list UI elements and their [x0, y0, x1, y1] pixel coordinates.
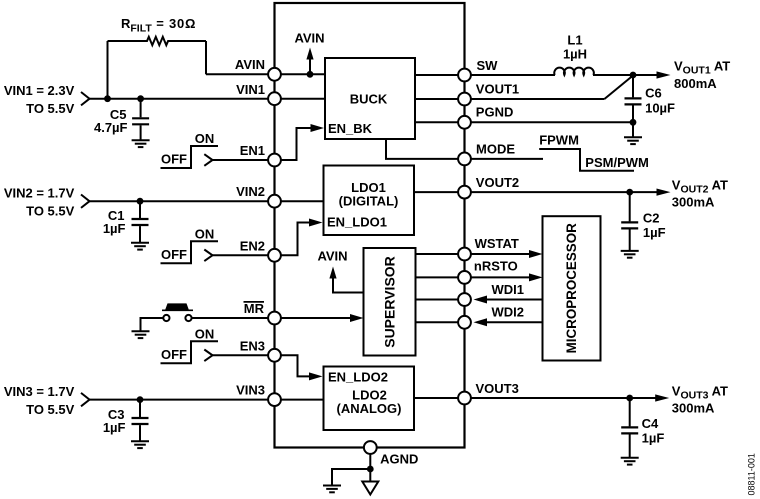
svg-text:1µF: 1µF — [642, 431, 665, 446]
EN2 pin label — [240, 238, 265, 253]
MR pin label — [244, 301, 265, 316]
svg-text:OFF: OFF — [161, 152, 187, 167]
wire PGND pin to C6 — [465, 121, 634, 123]
BUCK label — [350, 92, 388, 107]
svg-text:800mA: 800mA — [674, 76, 717, 91]
wire AVIN pin to BUCK — [275, 73, 326, 75]
VIN2 source label — [4, 185, 75, 218]
pin PGND — [458, 116, 471, 129]
svg-text:C6: C6 — [645, 86, 662, 101]
node VIN1/RFILT junction — [104, 95, 111, 102]
VOUT1 pin label — [476, 82, 519, 97]
LDO1 label — [351, 180, 386, 195]
wire WSTAT to microprocessor (with arrow) — [465, 250, 543, 258]
LDO2 label — [352, 387, 387, 402]
WDI2 pin label — [492, 304, 525, 319]
earth ground (AGND) — [323, 486, 341, 493]
wire SUPERVISOR to WDI2 pin — [416, 321, 465, 323]
wire VIN1 pin to BUCK — [275, 98, 326, 100]
pin VOUT3 — [458, 392, 471, 405]
svg-text:300mA: 300mA — [672, 401, 715, 416]
svg-text:(ANALOG): (ANALOG) — [337, 401, 402, 416]
wire VIN3 pin to LDO2 — [275, 399, 324, 401]
LDO1 (DIGITAL) label — [339, 194, 399, 209]
EN1 pin label — [240, 143, 265, 158]
switch ON/OFF for EN1 (step symbol) — [161, 146, 219, 168]
VIN2 pin label — [236, 184, 265, 199]
svg-text:1µF: 1µF — [643, 225, 666, 240]
pin VOUT2 — [458, 186, 471, 199]
pin WSTAT — [458, 248, 471, 261]
C5 value label — [94, 120, 128, 135]
wire L1 to VOUT1 arrow — [593, 74, 658, 76]
wire MODE stub — [465, 158, 544, 160]
VOUT2 current label — [672, 195, 715, 210]
svg-text:VOUT3: VOUT3 — [476, 381, 519, 396]
LDO2 (ANALOG) label — [337, 401, 402, 416]
wire BUCK to SW pin — [415, 74, 465, 76]
C3 ref label — [108, 407, 125, 422]
pin EN3 — [268, 349, 281, 362]
wire VIN1 input to pin — [90, 98, 275, 100]
wire microprocessor to WDI1 (with arrow) — [474, 296, 543, 304]
capacitor C4 1uF — [621, 398, 638, 458]
C6 ref label — [645, 86, 662, 101]
wire VIN2 input to pin — [90, 200, 275, 202]
svg-text:FPWM: FPWM — [539, 133, 579, 148]
pin VIN3 — [268, 393, 281, 406]
svg-text:AVIN: AVIN — [317, 248, 347, 263]
wire VOUT1 diagonal to node — [604, 76, 633, 100]
svg-text:C2: C2 — [643, 210, 660, 225]
svg-text:1µF: 1µF — [103, 420, 126, 435]
C2 value label — [643, 225, 666, 240]
IC U1 (PMIC) outline — [275, 3, 465, 448]
PSM/PWM label — [585, 155, 649, 170]
wire MR ground to pushbutton — [141, 318, 164, 331]
pin nRSTO — [458, 271, 471, 284]
pin MODE — [458, 153, 471, 166]
svg-text:OFF: OFF — [161, 347, 187, 362]
AVIN net up-arrow — [306, 48, 313, 75]
EN3 switch OFF label — [161, 347, 187, 362]
SUPERVISOR label — [382, 256, 398, 348]
svg-text:MODE: MODE — [476, 141, 515, 156]
svg-text:08811-001: 08811-001 — [746, 453, 756, 495]
C6 value label — [645, 100, 675, 115]
svg-text:PGND: PGND — [476, 104, 514, 119]
VOUT2 pin label — [476, 175, 519, 190]
capacitor C2 1uF — [621, 192, 638, 251]
capacitor C5 4.7uF — [132, 99, 149, 141]
svg-text:ON: ON — [195, 131, 215, 146]
switch ON/OFF for EN2 (step symbol) — [161, 241, 219, 263]
svg-text:EN_BK: EN_BK — [328, 121, 373, 136]
nRSTO pin label — [474, 259, 518, 274]
pin EN1 — [268, 154, 281, 167]
C3 value label — [103, 420, 126, 435]
node AVIN branch junction — [307, 71, 314, 78]
L1 ref label — [567, 33, 582, 48]
svg-text:EN2: EN2 — [240, 238, 265, 253]
svg-text:OFF: OFF — [161, 247, 187, 262]
pin EN2 — [268, 249, 281, 262]
VIN1 input chevron — [81, 92, 90, 105]
ground for MR switch — [132, 331, 150, 338]
wire BUCK to VOUT1 pin — [415, 98, 465, 100]
svg-text:300mA: 300mA — [672, 195, 715, 210]
ground for C6 — [624, 137, 642, 144]
svg-text:EN_LDO1: EN_LDO1 — [327, 215, 387, 230]
VOUT2 output arrow — [657, 189, 671, 196]
EN_BK pin label — [328, 121, 373, 136]
svg-text:WDI1: WDI1 — [492, 282, 525, 297]
wire microprocessor to WDI2 (with arrow) — [474, 318, 543, 326]
svg-text:TO 5.5V: TO 5.5V — [26, 101, 75, 116]
ground for C2 — [621, 251, 639, 258]
wire nRSTO to microprocessor (with arrow) — [465, 273, 543, 281]
wire VOUT1 pin right — [465, 98, 605, 100]
RFILT value label — [121, 16, 196, 35]
VOUT1 output arrow — [657, 71, 671, 78]
pin AVIN — [268, 68, 281, 81]
svg-text:BUCK: BUCK — [350, 92, 388, 107]
wire pushbutton to MR pin — [192, 317, 275, 319]
pin SW — [458, 69, 471, 82]
wire EN3 switch to pin — [213, 354, 275, 356]
WSTAT pin label — [475, 236, 519, 251]
svg-text:AVIN: AVIN — [294, 31, 324, 46]
figure number 08811-001 — [746, 453, 756, 495]
svg-text:AVIN: AVIN — [235, 57, 265, 72]
svg-text:VIN1: VIN1 — [236, 82, 265, 97]
svg-text:PSM/PWM: PSM/PWM — [585, 155, 649, 170]
svg-text:VOUT2: VOUT2 — [476, 175, 519, 190]
C1 value label — [103, 221, 126, 236]
wire into AVIN pin — [206, 73, 275, 75]
ground for C3 — [131, 441, 149, 448]
pushbutton S1 (MR) — [162, 303, 193, 321]
svg-text:VIN2 = 1.7V: VIN2 = 1.7V — [4, 185, 75, 200]
svg-text:ON: ON — [195, 226, 215, 241]
LDO2 block — [324, 367, 415, 431]
svg-text:4.7µF: 4.7µF — [94, 120, 128, 135]
wire EN2 switch to pin — [213, 254, 275, 256]
node PGND/C6 junction — [630, 119, 637, 126]
svg-text:ON: ON — [195, 326, 215, 341]
EN2 switch ON label — [195, 226, 215, 241]
VOUT3 output arrow — [655, 394, 669, 401]
switch ON/OFF for EN3 (step symbol) — [161, 341, 219, 363]
svg-text:nRSTO: nRSTO — [474, 259, 518, 274]
resistor RFILT (30 ohm) zigzag — [108, 37, 207, 45]
svg-text:TO 5.5V: TO 5.5V — [26, 402, 75, 417]
signal ground triangle (AGND) — [362, 482, 378, 495]
EN_LDO2 pin label — [328, 370, 388, 385]
svg-text:WSTAT: WSTAT — [475, 236, 519, 251]
AVIN up-arrow to supervisor — [329, 267, 363, 293]
node VOUT3/C4 junction — [626, 395, 633, 402]
wire VIN1 junction to RFILT (vertical) — [107, 41, 109, 99]
svg-text:VIN1 = 2.3V: VIN1 = 2.3V — [4, 83, 75, 98]
node VIN3/C3 junction — [137, 396, 144, 403]
svg-text:MICROPROCESSOR: MICROPROCESSOR — [564, 223, 579, 354]
pin VIN1 — [268, 92, 281, 105]
wire RFILT to AVIN row (vertical) — [205, 41, 207, 74]
wire VIN2 pin to LDO1 — [275, 200, 324, 202]
inductor L1 1uH — [554, 68, 594, 75]
pin VIN2 — [268, 195, 281, 208]
VIN3 pin label — [236, 383, 265, 398]
pin MR (active-low) — [268, 312, 281, 325]
node VIN1/C5 junction — [137, 95, 144, 102]
ground for C5 — [132, 140, 150, 147]
svg-text:VIN3 = 1.7V: VIN3 = 1.7V — [4, 384, 75, 399]
wire SUPERVISOR to WSTAT pin — [416, 253, 465, 255]
svg-text:1µF: 1µF — [103, 221, 126, 236]
AGND pin label — [380, 452, 418, 467]
svg-text:VIN2: VIN2 — [236, 184, 265, 199]
wire EN1 switch to pin — [213, 159, 275, 161]
svg-text:VOUT1: VOUT1 — [476, 82, 519, 97]
wire VIN3 input to pin — [90, 399, 275, 401]
FPWM label — [539, 133, 579, 148]
C5 ref label — [110, 107, 127, 122]
node AGND junction — [367, 466, 374, 473]
wire LDO2 to VOUT3 pin — [414, 397, 465, 399]
EN1 switch OFF label — [161, 152, 187, 167]
EN1 input chevron — [204, 154, 212, 166]
EN3 switch ON label — [195, 326, 215, 341]
wire AGND to earth ground — [332, 469, 370, 486]
VIN1 pin label — [236, 82, 265, 97]
svg-text:SW: SW — [477, 58, 499, 73]
node VIN2/C1 junction — [137, 198, 144, 205]
svg-text:(DIGITAL): (DIGITAL) — [339, 194, 399, 209]
wire C6/PGND to ground — [632, 122, 634, 137]
pin WDI1 — [458, 293, 471, 306]
pin VOUT1 — [458, 93, 471, 106]
wire AGND to signal ground — [369, 469, 371, 482]
WDI1 pin label — [492, 282, 525, 297]
wire VOUT3 pin right — [465, 397, 657, 399]
VOUT3 net label — [672, 384, 728, 402]
wire SW pin to L1 — [465, 74, 556, 76]
AVIN net label (supervisor) — [317, 248, 347, 263]
C4 ref label — [642, 416, 659, 431]
svg-text:EN_LDO2: EN_LDO2 — [328, 370, 388, 385]
C1 ref label — [108, 208, 125, 223]
VOUT1 net label — [674, 59, 730, 77]
wire BUCK to MODE pin — [386, 139, 465, 159]
EN3 pin label — [240, 338, 265, 353]
node VOUT2/C2 junction — [626, 189, 633, 196]
BUCK block — [325, 58, 415, 139]
capacitor C1 1uF — [132, 201, 149, 243]
svg-text:10µF: 10µF — [645, 100, 675, 115]
L1 value label — [563, 47, 587, 62]
node SW/C6/VOUT1 junction — [630, 72, 637, 79]
svg-text:AGND: AGND — [380, 452, 418, 467]
EN2 input chevron — [204, 250, 212, 262]
VOUT1 current label — [674, 76, 717, 91]
VIN3 input chevron — [81, 393, 90, 406]
wire BUCK to PGND pin — [415, 121, 465, 123]
VOUT2 net label — [672, 177, 728, 195]
svg-text:C4: C4 — [642, 416, 659, 431]
svg-text:EN1: EN1 — [240, 143, 265, 158]
svg-text:EN3: EN3 — [240, 338, 265, 353]
svg-text:SUPERVISOR: SUPERVISOR — [382, 256, 398, 348]
AVIN pin label — [235, 57, 265, 72]
mode waveform (FPWM high / PSM-PWM low) — [539, 149, 634, 171]
SUPERVISOR block — [364, 248, 416, 356]
EN3 input chevron — [204, 350, 212, 362]
svg-text:MR: MR — [244, 301, 265, 316]
wire AGND pin down — [369, 454, 371, 469]
VIN3 source label — [4, 384, 75, 417]
svg-text:1µH: 1µH — [563, 47, 587, 62]
wire SUPERVISOR to nRSTO pin — [416, 276, 465, 278]
AVIN net label — [294, 31, 324, 46]
pin WDI2 — [458, 316, 471, 329]
capacitor C6 10uF — [625, 75, 642, 122]
wire EN1 to EN_BK (with arrow) — [275, 124, 325, 160]
VOUT3 current label — [672, 401, 715, 416]
SW pin label — [477, 58, 499, 73]
wire EN3 to EN_LDO2 (with arrow) — [275, 355, 323, 380]
svg-text:WDI2: WDI2 — [492, 304, 525, 319]
VOUT3 pin label — [476, 381, 519, 396]
VIN1 source label — [4, 83, 75, 116]
svg-text:LDO1: LDO1 — [351, 180, 386, 195]
svg-text:VIN3: VIN3 — [236, 383, 265, 398]
wire EN2 to EN_LDO1 (with arrow) — [275, 219, 323, 256]
wire LDO1 to VOUT2 pin — [414, 191, 465, 193]
EN2 switch OFF label — [161, 247, 187, 262]
LDO1 block — [324, 166, 415, 236]
PGND pin label — [476, 104, 514, 119]
svg-text:TO 5.5V: TO 5.5V — [26, 204, 75, 219]
EN_LDO1 pin label — [327, 215, 387, 230]
C4 value label — [642, 431, 665, 446]
MICROPROCESSOR label — [564, 223, 579, 354]
ground for C4 — [621, 458, 639, 465]
pin AGND — [364, 441, 377, 454]
VIN2 input chevron — [81, 195, 90, 208]
wire VOUT2 pin right — [465, 191, 658, 193]
wire MR pin to SUPERVISOR (with arrow) — [275, 314, 364, 322]
EN1 switch ON label — [195, 131, 215, 146]
MODE pin label — [476, 141, 515, 156]
svg-text:L1: L1 — [567, 33, 582, 48]
wire SUPERVISOR to WDI1 pin — [416, 299, 465, 301]
MICROPROCESSOR block U2 — [543, 216, 601, 360]
ground for C1 — [131, 243, 149, 250]
capacitor C3 1uF — [132, 400, 149, 442]
C2 ref label — [643, 210, 660, 225]
